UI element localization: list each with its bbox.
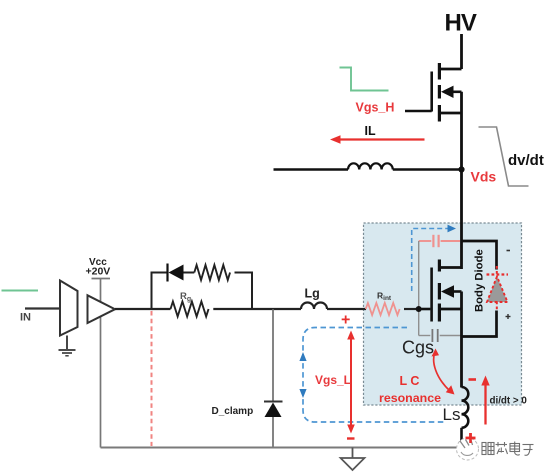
svg-text:Vds: Vds <box>471 169 497 185</box>
watermark logo circle <box>457 438 479 460</box>
wire to Rg <box>152 308 171 310</box>
svg-text:Cgs: Cgs <box>402 338 434 358</box>
wire Vds node to Q2 drain <box>460 170 463 270</box>
wire HV to Q1 drain <box>460 34 463 69</box>
ground rail wire <box>101 447 463 449</box>
svg-text:Body Diode: Body Diode <box>474 249 486 312</box>
wire turn-off branch right <box>235 272 253 274</box>
red dashed divider <box>151 311 153 446</box>
di/dt arrow <box>484 382 486 425</box>
Vgs_H gate waveform (green) <box>340 68 389 91</box>
wire up to turn-off branch <box>151 272 153 310</box>
svg-text:IL: IL <box>365 124 376 138</box>
wire body-diode branch top <box>462 241 497 270</box>
node IN idle waveform (green) <box>2 290 39 292</box>
svg-text:IN: IN <box>20 312 31 324</box>
diode D_clamp <box>264 401 283 403</box>
ground under driver <box>66 336 68 350</box>
transistor Q1 high-side MOSFET <box>440 68 462 71</box>
resistor Rint <box>366 303 400 315</box>
node Vds junction dot <box>458 166 464 172</box>
capacitor Cgs <box>419 335 431 337</box>
inductor Ls <box>462 387 469 428</box>
inductor L load <box>348 163 393 169</box>
watermark text glyphs <box>482 442 534 456</box>
svg-text:Vgs_H: Vgs_H <box>356 101 395 115</box>
diode DB body diode (red dashed) <box>487 273 509 275</box>
dv/dt waveform <box>479 127 529 186</box>
resistor Rg <box>171 302 209 317</box>
svg-text:+20V: +20V <box>86 266 111 278</box>
driver input stage U1 (trapezoid) <box>60 281 78 336</box>
wire driver output to Rg node <box>115 308 153 310</box>
driver output buffer U2 (triangle) <box>88 295 116 323</box>
wire Q1 gate lead <box>405 110 432 113</box>
svg-text:di/dt > 0: di/dt > 0 <box>490 396 528 407</box>
inductor Lg <box>301 303 327 310</box>
Ls plus mark <box>466 437 476 440</box>
wire Vcc rail down to ground rail <box>100 279 102 448</box>
miller path (blue dashed) <box>412 229 449 292</box>
resonance curved arrow <box>434 352 450 391</box>
parasitic model box (shaded region) <box>364 223 522 405</box>
Vgs_L loop (blue dashed) <box>303 328 444 423</box>
svg-text:L C: L C <box>400 374 420 388</box>
svg-text:D_clamp: D_clamp <box>212 406 254 417</box>
wire load line left <box>274 168 349 170</box>
wire internal gate net (gray) <box>418 241 420 336</box>
Vgs_L measure arrow <box>350 336 352 429</box>
svg-text:dv/dt: dv/dt <box>508 152 544 169</box>
svg-text:Lg: Lg <box>305 287 320 301</box>
wire Ls to ground rail <box>460 428 463 448</box>
wire Q2 gate lead <box>419 308 431 311</box>
wire Rint to gate node <box>404 308 419 310</box>
wire Q2 source down to Ls <box>460 292 463 388</box>
Vgs_L minus mark <box>347 437 355 439</box>
wire Lg to Rint <box>327 308 366 310</box>
diode D1 turn-off <box>166 264 168 282</box>
wire D_clamp upper <box>272 309 274 402</box>
svg-text:HV: HV <box>445 10 477 37</box>
wire load line right <box>393 168 460 170</box>
body diode plus mark <box>506 316 511 318</box>
capacitor Cgd (miller) <box>419 240 432 242</box>
Ls plus mark overlay <box>466 437 476 440</box>
IL current arrow <box>337 138 425 140</box>
resistor R1 turn-off branch <box>194 265 230 280</box>
transistor Q2 low-side MOSFET <box>440 266 462 269</box>
wire Rg to Lg <box>213 308 301 310</box>
body diode minus mark <box>507 250 511 252</box>
Vcc supply bar <box>92 278 111 280</box>
svg-text:+: + <box>341 312 350 329</box>
wire IN to driver <box>25 307 60 309</box>
wire D_clamp lower <box>272 417 274 448</box>
svg-text:resonance: resonance <box>379 391 441 405</box>
wire body-diode branch bottom <box>462 311 497 337</box>
svg-text:Ls: Ls <box>443 405 461 424</box>
wire turn-off branch left <box>151 272 168 274</box>
Ls minus mark <box>469 378 477 381</box>
wire Q1 source to Vds node <box>460 92 463 170</box>
svg-text:Vgs_L: Vgs_L <box>315 373 351 387</box>
loop arrow up <box>299 352 306 361</box>
ground symbol <box>352 448 354 459</box>
node gate junction dot <box>416 306 422 312</box>
loop arrow down <box>299 389 306 398</box>
